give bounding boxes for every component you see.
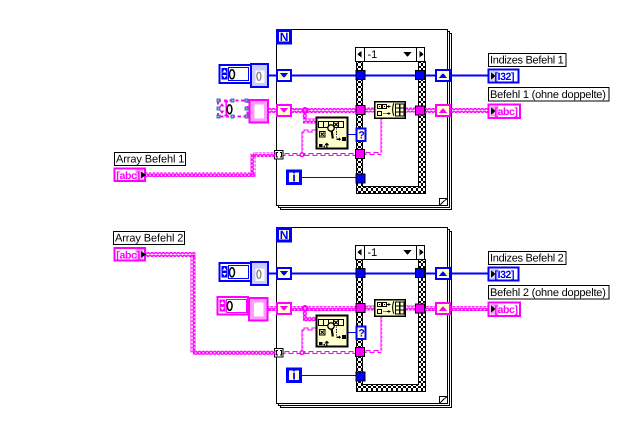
- right magenta shift register 1: [436, 105, 450, 116]
- wire: branch up to Search 1D Array element input 2: [302, 328, 316, 352]
- svg-text:[abc]: [abc]: [495, 106, 518, 118]
- wire: branch up to Search 1D Array element input 1: [302, 130, 316, 154]
- svg-text:Array Befehl 1: Array Befehl 1: [116, 154, 184, 166]
- wire: case 2 right tunnel to right shift register: [423, 306, 437, 311]
- svg-text:Befehl 1 (ohne doppelte): Befehl 1 (ohne doppelte): [490, 89, 606, 101]
- auto-indexing tunnel 2 on for-loop border: [275, 349, 284, 358]
- string array control Array Befehl 2 terminal: [115, 248, 147, 262]
- svg-text:?: ?: [358, 130, 364, 142]
- wire: right blue shift register 2 to Indizes indicator: [449, 273, 489, 275]
- wire junction 2 on string wire: [299, 350, 304, 355]
- wire: case 1 right tunnel to right shift register: [423, 108, 437, 113]
- string array indicator Befehl 2 (ohne doppelte): [489, 303, 521, 317]
- wire: Search 1D Array output to case selector terminal 1: [348, 134, 357, 136]
- wire: iteration terminal 1 to case tunnel: [302, 177, 357, 179]
- svg-text:N: N: [280, 30, 289, 44]
- Build Array function 2: [375, 300, 406, 317]
- wire: auto-index tunnel 2 to case element tunnel: [283, 352, 356, 354]
- wire: blue across case 1 interior: [363, 75, 419, 77]
- right blue shift register 1: [436, 70, 450, 81]
- for-loop 1 folded corner: [440, 199, 448, 206]
- wire junction 1 on string wire: [299, 152, 304, 157]
- I32 array constant 2 element (0): [251, 262, 268, 285]
- wire: case tunnel to Build Array lower input 2: [364, 316, 382, 353]
- label Array Befehl 1: [115, 153, 186, 166]
- wire: Array Befehl 1 to for-loop 1 tunnel: [146, 152, 276, 177]
- wire: branch down to Search 1D Array array input 2: [303, 309, 317, 322]
- wire junction 1 on magenta array wire: [302, 107, 309, 114]
- wire: blue across case 2 interior: [363, 273, 419, 275]
- svg-text:?: ?: [358, 328, 364, 340]
- wire junction 2 on magenta array wire: [302, 305, 309, 312]
- svg-text:[abc]: [abc]: [116, 250, 140, 262]
- Search 1D Array function 2: [317, 316, 348, 347]
- I32 array indicator Indizes Befehl 1: [489, 70, 519, 83]
- case 2 left tunnel (string array): [356, 304, 365, 313]
- svg-text:-1: -1: [368, 247, 378, 259]
- string array indicator Befehl 1 (ohne doppelte): [489, 105, 521, 119]
- wire: right magenta shift register 1 to Befehl indicator: [449, 108, 490, 113]
- Build Array function 1: [375, 102, 406, 119]
- case 2 right tunnel (string array out): [416, 304, 425, 313]
- svg-text:[I32]: [I32]: [495, 71, 515, 83]
- label Befehl 2 (ohne doppelte): [489, 286, 610, 300]
- string array constant 2 index display: [218, 297, 249, 315]
- case structure 1 hatched border: [357, 62, 426, 194]
- svg-text:i: i: [292, 368, 296, 383]
- svg-text:Indizes Befehl 1: Indizes Befehl 1: [490, 55, 564, 67]
- case structure 2 hatched border: [357, 260, 426, 392]
- right blue shift register 2: [436, 268, 450, 279]
- case 2 left tunnel (I32 array): [356, 269, 365, 278]
- count terminal N of for-loop 1: [278, 30, 291, 44]
- case 1 right tunnel (I32 array out): [416, 71, 425, 80]
- case structure 2 selector label -1: [356, 246, 425, 260]
- wire: I32 array constant 1 to left shift register: [267, 75, 278, 77]
- case 1 right tunnel (string array out): [416, 106, 425, 115]
- case selector terminal ? 1: [357, 129, 366, 142]
- svg-text:N: N: [280, 228, 289, 242]
- iteration terminal i of for-loop 2: [288, 368, 301, 383]
- wire: auto-index tunnel 1 to case element tunnel: [283, 154, 356, 156]
- case 2 right tunnel (I32 array out): [416, 269, 425, 278]
- case 1 left tunnel (string element): [356, 150, 365, 159]
- for-loop 1 stacked frame pages: [279, 32, 452, 210]
- svg-text:[abc]: [abc]: [116, 170, 140, 182]
- string array control Array Befehl 1 terminal: [115, 169, 147, 183]
- for-loop 2 folded corner: [440, 397, 448, 404]
- svg-text:i: i: [292, 170, 296, 185]
- case selector terminal ? 2: [357, 327, 366, 340]
- right magenta shift register 2: [436, 303, 450, 314]
- I32 array constant 2 index display: [220, 263, 252, 281]
- wire: left magenta shift register 2 to case tunnel: [290, 306, 357, 311]
- svg-text:Befehl 2 (ohne doppelte): Befehl 2 (ohne doppelte): [490, 287, 606, 299]
- case 1 left tunnel (string array): [356, 106, 365, 115]
- wire: left blue shift register 1 to case left tunnel: [290, 75, 357, 77]
- left blue shift register 1: [277, 70, 291, 81]
- wire: Search 1D Array output to case selector terminal 2: [348, 332, 357, 334]
- svg-text:Indizes Befehl 2: Indizes Befehl 2: [490, 253, 564, 265]
- wire: Build Array 2 to case right tunnel: [404, 306, 420, 311]
- string array constant 2 element (empty): [249, 298, 268, 321]
- svg-text:Array Befehl 2: Array Befehl 2: [115, 233, 183, 245]
- wire: right blue shift register 1 to Indizes indicator: [449, 75, 489, 77]
- selection handles around string array constant 1: [216, 98, 248, 118]
- wire: I32 array constant 2 to left shift register: [267, 273, 278, 275]
- string array constant 1 element (empty, selected): [250, 100, 269, 123]
- string array constant 1 index display (selected): [218, 101, 248, 117]
- wire: string array constant 1 to left shift register: [267, 108, 278, 113]
- svg-text:[I32]: [I32]: [495, 269, 515, 281]
- wire: iteration terminal 2 to case tunnel: [302, 375, 357, 377]
- case 1 left tunnel (iteration): [356, 174, 365, 183]
- wire: right magenta shift register 2 to Befehl indicator: [449, 306, 490, 311]
- wire: case 1 right tunnel to right shift register: [423, 75, 437, 77]
- svg-text:-1: -1: [368, 49, 378, 61]
- wire: case tunnel to Build Array lower input 1: [364, 118, 382, 155]
- auto-indexing tunnel 1 on for-loop border: [275, 151, 284, 160]
- I32 array indicator Indizes Befehl 2: [489, 268, 519, 281]
- label Array Befehl 2: [114, 232, 185, 245]
- case structure 1 selector label -1: [356, 48, 425, 62]
- left magenta shift register 1: [277, 105, 291, 116]
- case 1 left tunnel (I32 array): [356, 71, 365, 80]
- label Indizes Befehl 2: [489, 252, 567, 265]
- wire: case tunnel to Build Array 1: [363, 108, 375, 113]
- wire: branch down to Search 1D Array array input 1: [303, 111, 317, 124]
- wire: case 2 right tunnel to right shift register: [423, 273, 437, 275]
- left magenta shift register 2: [277, 303, 291, 314]
- I32 array constant 1 index display: [220, 65, 252, 83]
- for-loop 2 main border: [277, 228, 448, 404]
- for-loop 2 stacked frame pages: [279, 230, 452, 408]
- case 2 left tunnel (string element): [356, 348, 365, 357]
- left blue shift register 2: [277, 268, 291, 279]
- for-loop 1 main border: [277, 30, 448, 206]
- I32 array constant 1 element (0): [251, 64, 268, 87]
- wire: case tunnel to Build Array 2: [363, 306, 375, 311]
- Search 1D Array function 1: [317, 118, 348, 149]
- wire: left magenta shift register 1 to case tunnel: [290, 108, 357, 113]
- wire: Array Befehl 2 to for-loop 2 tunnel: [146, 252, 276, 355]
- svg-text:[abc]: [abc]: [495, 304, 518, 316]
- wire: string array constant 2 to left shift register: [267, 306, 278, 311]
- count terminal N of for-loop 2: [278, 228, 291, 242]
- label Indizes Befehl 1: [489, 54, 567, 67]
- label Befehl 1 (ohne doppelte): [489, 88, 610, 102]
- iteration terminal i of for-loop 1: [288, 170, 301, 185]
- case 2 left tunnel (iteration): [356, 372, 365, 381]
- wire: left blue shift register 2 to case left tunnel: [290, 273, 357, 275]
- wire: Build Array 1 to case right tunnel: [404, 108, 420, 113]
